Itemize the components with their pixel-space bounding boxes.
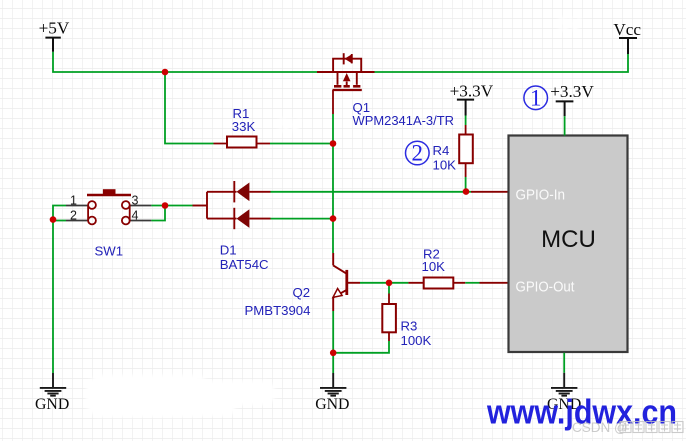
power Vcc [613,20,641,54]
SW1 actuator bar [87,194,131,197]
ghost watermark smudge bottom left [86,375,275,417]
wire SW1 left to ground rail [53,206,66,374]
svg-text:GND: GND [35,396,69,413]
ground GND right [547,373,581,413]
wire GPIO-In pin [471,191,508,193]
wire Q1 gate down [332,90,334,144]
transistor Q2 NPN [333,253,360,311]
svg-text:MCU: MCU [541,226,596,253]
svg-text:100K: 100K [401,333,432,348]
svg-text:PMBT3904: PMBT3904 [245,303,311,318]
resistor R4 [459,116,473,178]
svg-text:2: 2 [70,208,77,222]
wire top +5V rail [53,52,317,72]
circled number 1 [524,85,548,110]
Q2 emitter arrow [333,289,342,298]
node junction dot Q2 base R2 R3 [386,280,393,287]
SW1 pin 3 [130,205,152,207]
node junction dot SW1 right [162,202,169,209]
svg-text:+3.3V: +3.3V [450,81,494,100]
svg-text:4: 4 [132,208,139,222]
svg-text:Q2: Q2 [293,285,311,300]
svg-text:BAT54C: BAT54C [220,257,269,272]
D1 bottom diode triangle [237,209,250,228]
node junction dot emitter R3 [330,350,337,357]
svg-text:D1: D1 [220,243,237,258]
wire rail to Vcc corner [375,54,629,72]
svg-text:10K: 10K [433,158,457,173]
wire R4 bottom [465,177,467,192]
SW1 pin 2 [66,220,88,222]
SW1 pin 1 [66,205,88,207]
svg-text:GPIO-In: GPIO-In [516,188,566,204]
wire SW1 right to D1 [151,206,192,221]
circled number 2 [406,141,430,166]
wire R2 to GPIO-Out [465,282,479,284]
Q1 body diode arrow [345,54,352,63]
svg-text:1: 1 [70,193,77,207]
D1 top diode triangle [237,183,250,202]
svg-text:33K: 33K [232,119,256,134]
SW1 contacts [88,201,130,224]
transistor Q1 P-MOSFET [317,53,375,90]
node junction dot top rail R1 branch [162,69,169,76]
wire to GPIO-In [466,191,471,193]
svg-text:GPIO-Out: GPIO-Out [516,280,575,296]
Q1 substrate arrow [343,73,351,81]
SW1 actuator knob [103,189,116,194]
svg-text:SW1: SW1 [95,244,124,259]
wire gate net vertical down to Q2 [332,144,334,254]
label SW1 pin numbers [70,193,139,222]
svg-text:10K: 10K [422,259,446,274]
wire D1 bottom anode to gate net [271,218,334,220]
wire GPIO-Out pin [480,282,509,284]
power +3.3V right [550,82,594,116]
power +3.3V left [450,81,494,115]
svg-text:Vcc: Vcc [613,20,641,39]
wire Q2 base to R2 node [360,282,389,284]
Q1 channel bars [334,85,360,88]
wire Q2 emitter down [332,311,334,373]
resistor R1 [214,137,271,148]
node junction dot SW1 left [50,216,57,223]
wire R1 to gate node [270,143,333,145]
resistor R2 [389,278,465,289]
node junction dot gate R1 [330,140,337,147]
wire MCU bottom to GND [563,353,565,373]
svg-text:5V: 5V [278,116,302,137]
svg-text:2: 2 [412,141,424,166]
svg-text:3: 3 [132,193,139,207]
node junction dot D1 bottom anode [330,215,337,222]
wire +3.3V to MCU top [564,116,566,135]
svg-text:5V: 5V [558,15,582,36]
switch SW1 [66,189,151,224]
node junction dot R4 GPIO-In [463,188,470,195]
svg-text:+3.3V: +3.3V [550,82,594,101]
svg-text:1: 1 [530,85,542,110]
svg-text:GND: GND [315,396,349,413]
diode D1 BAT54C [193,181,271,229]
MCU block [509,136,628,353]
svg-text:R3: R3 [401,318,418,333]
watermark CSDN gray [572,420,683,435]
power +5V [39,19,70,52]
SW1 pin 4 [130,220,152,222]
svg-text:CSDN @: CSDN @ [572,420,628,435]
svg-text:R4: R4 [433,143,450,158]
svg-text:+5V: +5V [39,19,70,38]
ground GND left [35,373,69,413]
resistor R3 [382,283,396,341]
wire R3 bottom to emitter [333,341,389,353]
svg-text:WPM2341A-3/TR: WPM2341A-3/TR [353,113,455,128]
wire rail down to R1 [165,72,214,144]
ground GND middle [315,373,349,413]
wire D1 top anode to GPIO-In net [271,191,467,193]
